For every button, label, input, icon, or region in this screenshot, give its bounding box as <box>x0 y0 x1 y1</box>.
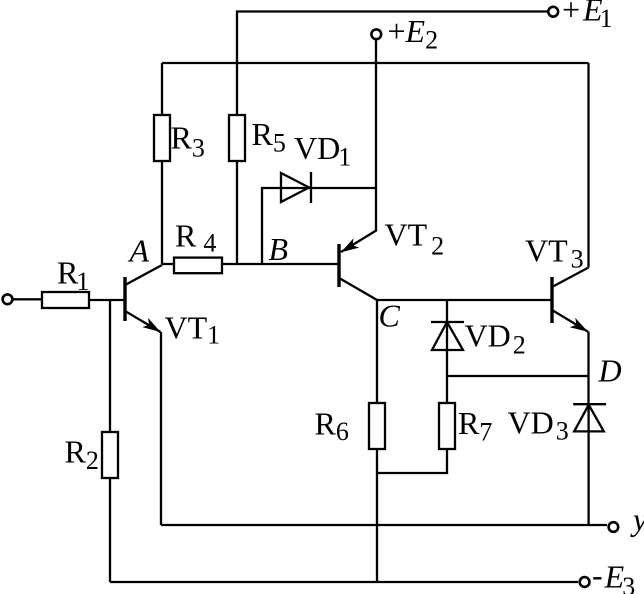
resistor R5 <box>229 115 245 161</box>
svg-text:C: C <box>379 298 401 334</box>
diode VD3 <box>573 404 606 432</box>
diode VD1 <box>281 172 311 203</box>
transistor VT3 <box>552 268 591 337</box>
wire R1 to VT1 base <box>89 299 125 301</box>
svg-text:R6: R6 <box>315 406 349 447</box>
svg-text:VT2: VT2 <box>385 217 445 261</box>
wire rail -E3 <box>110 581 578 583</box>
wire R2 bottom <box>109 478 111 582</box>
resistor R1 <box>42 292 89 308</box>
svg-text:+E1: +E1 <box>562 0 613 33</box>
wire E2 vertical <box>375 39 377 230</box>
wire R5 bottom <box>236 161 238 264</box>
terminal +E2 <box>371 29 381 39</box>
transistor VT1 <box>125 265 163 337</box>
wire VT2 collector down to R6 <box>376 300 378 403</box>
svg-text:R7: R7 <box>458 405 492 447</box>
wire R6 bottom <box>376 449 378 582</box>
resistor R3 <box>154 115 170 161</box>
wire VD1 left <box>262 188 281 264</box>
svg-text:VD2: VD2 <box>465 318 526 360</box>
wire VD1 right <box>311 187 376 189</box>
wire VD3 to y rail <box>587 432 589 525</box>
diode VD2 <box>431 322 464 350</box>
resistor R7 <box>439 403 455 449</box>
svg-text:VD1: VD1 <box>294 130 351 172</box>
wire VT2 collector rail C <box>377 299 552 301</box>
terminal y <box>609 522 619 532</box>
wire input to R1 <box>14 298 43 300</box>
svg-text:R4: R4 <box>175 218 216 258</box>
wire VD2 branch top <box>446 300 448 322</box>
svg-text:y: y <box>630 501 644 537</box>
wire VT3 collector up <box>587 63 589 268</box>
svg-text:D: D <box>598 353 622 389</box>
svg-text:A: A <box>128 233 150 269</box>
wire VT3 emitter down to VD3 <box>587 332 589 405</box>
wire R3 bottom to node A <box>161 161 163 264</box>
wire R2 branch <box>109 300 111 432</box>
wire R6-R7 bottom join <box>377 449 447 473</box>
transistor VT2 <box>338 230 377 300</box>
wire VD2 to R7 <box>446 350 448 403</box>
svg-text:VD3: VD3 <box>508 405 569 446</box>
svg-text:VT3: VT3 <box>525 233 584 274</box>
svg-text:R2: R2 <box>65 434 99 476</box>
wire VT1 emitter down <box>160 332 162 525</box>
svg-text:R1: R1 <box>57 255 89 297</box>
svg-text:-E3: -E3 <box>592 557 635 594</box>
wire top rail E1 <box>237 12 548 116</box>
svg-text:R3: R3 <box>171 120 205 163</box>
wire node A to VT2 base <box>162 263 339 265</box>
terminal +E1 <box>548 7 558 17</box>
svg-text:B: B <box>269 231 289 267</box>
wire node D horizontal <box>447 375 589 377</box>
resistor R6 <box>369 403 385 449</box>
terminal -E3 <box>580 577 590 587</box>
terminal input <box>3 294 13 304</box>
wire output rail y <box>161 524 607 526</box>
svg-text:VT1: VT1 <box>165 310 221 350</box>
resistor R4 <box>174 258 222 274</box>
resistor R2 <box>102 432 118 478</box>
wire rail E2 horizontal <box>162 62 589 64</box>
wire R3 top <box>161 63 163 115</box>
svg-text:+E2: +E2 <box>388 13 439 55</box>
svg-text:R5: R5 <box>252 116 286 158</box>
